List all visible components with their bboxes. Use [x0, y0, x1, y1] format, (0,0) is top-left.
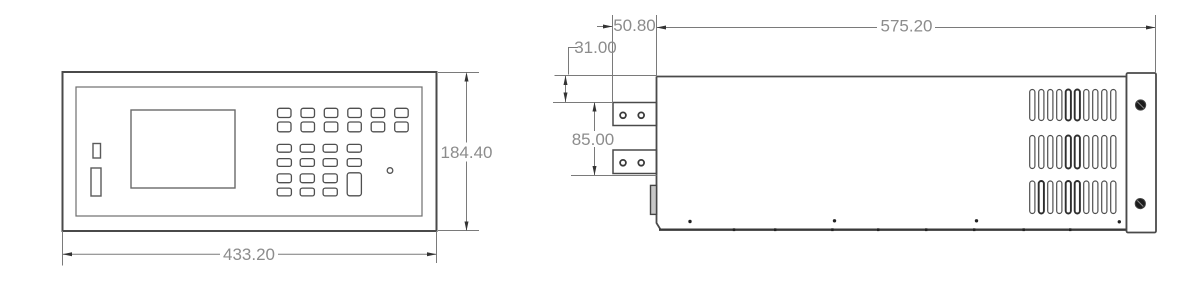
indicator LED — [387, 168, 393, 174]
small switch — [93, 144, 101, 159]
dimension 50.80 extension line left — [612, 15, 614, 103]
dimension 85.00 line — [594, 102, 596, 176]
rear screw top — [1136, 100, 1146, 110]
vent slots row 2 — [1030, 136, 1116, 169]
dimension 50.80 extension line right / body front extended — [656, 15, 658, 77]
side view body front edge — [657, 77, 661, 230]
dimension 575.20 arrows — [657, 26, 667, 30]
foot rivet 2 — [833, 219, 836, 222]
front view outer panel — [63, 72, 437, 231]
svg-text:184.40: 184.40 — [441, 143, 493, 162]
dimension 184.40 line — [466, 74, 468, 231]
dimension 575.20 line — [657, 27, 1156, 29]
dimension 31.00 line and arrows — [565, 76, 567, 103]
upper box hole 1 — [620, 112, 626, 118]
foot rivet 1 — [688, 220, 691, 223]
svg-text:85.00: 85.00 — [572, 130, 615, 149]
lower box hole 2 — [638, 160, 644, 166]
svg-text:575.20: 575.20 — [881, 17, 933, 36]
dimension 433.20 extension lines — [63, 231, 437, 266]
vent slots row 1 — [1030, 90, 1116, 121]
dimension 85.00 arrows — [593, 102, 597, 112]
front lower tab — [651, 185, 657, 214]
foot rivet 4 — [1118, 220, 1121, 223]
svg-text:31.00: 31.00 — [574, 38, 617, 57]
extension line ear top left — [553, 102, 613, 104]
side view body bottom edge — [659, 228, 1127, 230]
rack ear lower box — [613, 150, 657, 174]
darker vent slots (print artifact) — [1039, 90, 1080, 214]
svg-text:50.80: 50.80 — [613, 16, 656, 35]
dimension 433.20 arrows — [63, 252, 73, 256]
dimension 575.20 extension line right — [1155, 15, 1157, 73]
dimension 50.80 outside arrow left — [597, 26, 613, 28]
rear screw bottom — [1135, 199, 1145, 209]
lower box hole 1 — [620, 160, 626, 166]
rack ear upper box — [613, 103, 657, 126]
enter tall key — [347, 173, 361, 196]
extension line ear bottom left — [571, 175, 657, 177]
leader 31.00 — [569, 48, 579, 75]
upper box hole 2 — [638, 112, 644, 118]
svg-text:433.20: 433.20 — [223, 245, 275, 264]
side view body top edge — [657, 76, 1127, 78]
dimension 184.40 arrows — [465, 72, 469, 82]
vent slots row 3 — [1030, 181, 1116, 214]
dimension 433.20 line — [63, 253, 437, 255]
display screen — [131, 110, 235, 188]
front view inner panel — [76, 87, 422, 216]
foot rivet 3 — [975, 219, 978, 222]
keypad upper group — [278, 108, 409, 132]
power switch — [91, 168, 101, 196]
side view body right edge — [1126, 77, 1128, 231]
dimension 184.40 extension lines — [438, 73, 479, 231]
bottom edge joint ticks — [733, 228, 1072, 231]
extension line body top left — [555, 75, 657, 77]
rear bracket — [1127, 73, 1157, 233]
keypad lower group — [277, 144, 361, 196]
